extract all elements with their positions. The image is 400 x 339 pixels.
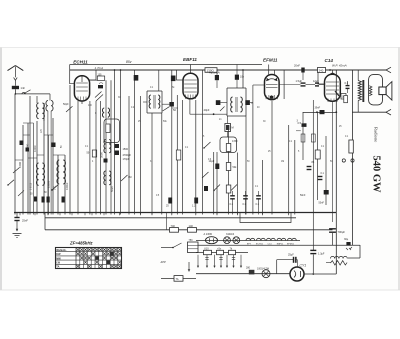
svg-text:1M: 1M — [128, 176, 131, 179]
svg-text:10n: 10n — [240, 76, 245, 79]
svg-text:740: 740 — [171, 224, 176, 228]
svg-text:U10: U10 — [204, 247, 209, 250]
svg-text:Wellenb.: Wellenb. — [56, 249, 67, 252]
svg-text:0.003: 0.003 — [33, 145, 37, 152]
svg-text:310Ω/4: 310Ω/4 — [226, 233, 235, 236]
svg-text:3000: 3000 — [100, 152, 104, 158]
svg-text:LW: LW — [56, 262, 60, 265]
svg-text:1.5µF: 1.5µF — [296, 80, 303, 83]
svg-text:1.7mA: 1.7mA — [95, 66, 104, 70]
svg-text:1M: 1M — [281, 161, 284, 163]
svg-text:6000: 6000 — [26, 143, 30, 150]
svg-text:TA: TA — [56, 266, 59, 269]
svg-text:0.0012: 0.0012 — [31, 182, 33, 190]
svg-text:EFM11: EFM11 — [263, 58, 278, 63]
svg-text:KW: KW — [56, 253, 61, 256]
svg-text:50nF: 50nF — [319, 202, 325, 205]
svg-text:240: 240 — [319, 68, 324, 72]
svg-text:50nF: 50nF — [300, 194, 306, 197]
svg-text:ECH11: ECH11 — [73, 59, 88, 64]
svg-text:12µF: 12µF — [313, 80, 319, 83]
svg-text:25nF: 25nF — [22, 219, 28, 223]
svg-text:39nF: 39nF — [315, 106, 321, 109]
svg-text:M: M — [232, 125, 234, 129]
svg-text:25µF: 25µF — [288, 253, 294, 256]
svg-text:5020: 5020 — [110, 186, 114, 192]
svg-text:50pF: 50pF — [63, 103, 69, 106]
svg-text:ZF=485kHz: ZF=485kHz — [69, 241, 93, 246]
svg-text:0.5: 0.5 — [298, 122, 302, 125]
svg-text:13050: 13050 — [47, 180, 51, 188]
svg-text:EBF11: EBF11 — [183, 57, 197, 62]
svg-text:1500: 1500 — [123, 148, 129, 151]
svg-text:MW: MW — [56, 257, 61, 260]
svg-text:0.3M: 0.3M — [232, 140, 237, 143]
svg-text:540 GW: 540 GW — [371, 156, 382, 194]
svg-text:140: 140 — [189, 224, 194, 228]
svg-text:30µ: 30µ — [344, 238, 349, 241]
svg-text:Radione: Radione — [373, 127, 378, 142]
svg-text:0.0012: 0.0012 — [66, 182, 69, 190]
svg-text:CY1: CY1 — [300, 263, 307, 267]
svg-text:4700pF: 4700pF — [123, 154, 132, 157]
svg-text:20nF: 20nF — [294, 64, 300, 68]
svg-text:753: 753 — [189, 239, 194, 242]
svg-text:1.3µF: 1.3µF — [318, 253, 325, 256]
svg-text:W.P. 42mA: W.P. 42mA — [332, 63, 347, 67]
svg-text:85v: 85v — [126, 60, 132, 64]
svg-text:700µF: 700µF — [338, 230, 346, 234]
svg-text:APP: APP — [160, 260, 166, 264]
svg-text:TA: TA — [176, 278, 179, 281]
svg-text:1nF: 1nF — [21, 86, 26, 90]
svg-text:280: 280 — [246, 267, 251, 270]
svg-text:0.003: 0.003 — [19, 161, 22, 168]
svg-text:40pF: 40pF — [204, 108, 210, 112]
svg-text:170pF: 170pF — [123, 158, 131, 161]
svg-text:100Ω/4.2W: 100Ω/4.2W — [257, 267, 270, 270]
svg-text:105: 105 — [98, 73, 103, 76]
svg-text:0.1: 0.1 — [345, 81, 349, 85]
svg-text:A 1/380: A 1/380 — [204, 233, 213, 236]
